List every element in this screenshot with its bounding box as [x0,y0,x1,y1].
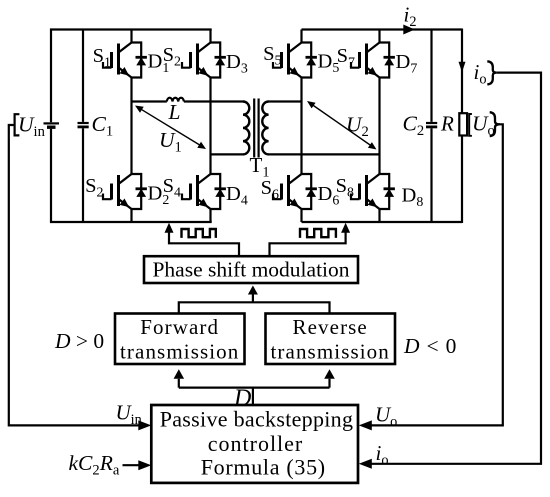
label Uo with sense brackets [469,112,500,140]
wire: primary bridge bottom rail [50,221,212,223]
resistor R [459,113,467,135]
arrowhead gate right [341,223,350,233]
transistor S4 [182,174,211,209]
svg-text:Reverse: Reverse [293,315,368,339]
wire: gate drive left (phase shift modulation to primary bridge) [169,232,239,256]
transformer T1 secondary winding [262,102,268,155]
wire: leg2 collector segment [209,30,211,44]
arrowhead gate left [165,223,174,233]
PWM waveform glyph right [300,229,336,238]
capacitor C1 [78,29,89,224]
svg-text:transmission: transmission [271,340,390,364]
wire: leg3 middle segment [300,77,302,176]
capacitor C2 [426,29,437,224]
wire: Uo feedback (right) [370,124,503,425]
diode D1 [132,43,147,78]
block: Phase shift modulation [144,256,358,283]
arrowhead into Reverse transmission [324,369,335,379]
wire: leg4 middle segment [378,77,380,176]
diode D4 [211,174,226,209]
arrowhead io into controller [359,459,372,469]
svg-text:Formula (35): Formula (35) [201,454,326,479]
transformer T1 core [254,99,258,158]
wire: io feedback (right) [370,73,541,464]
wire: leg3 collector segment [300,30,302,44]
arrowhead Uin into controller [138,420,151,430]
svg-text:Phase shift modulation: Phase shift modulation [152,258,349,282]
arrowhead into phase shift modulation [248,286,258,295]
diode D8 [380,174,395,209]
wire: leg3 emitter segment [300,208,302,222]
svg-text:R: R [440,112,454,136]
label Reverse transmission [271,315,390,364]
arrowhead Uo into controller [359,420,372,430]
svg-text:controller: controller [208,431,304,456]
transistor S8 [351,174,380,209]
block: Reverse transmission [266,314,396,365]
wire: controller output D to transmission boxes [179,379,330,405]
diode D7 [380,43,395,78]
wire: gate drive right (phase shift modulation to secondary bridge) [270,232,346,256]
label controller text [160,407,354,480]
wire: Uin feedback (left) [9,125,140,425]
wire: primary bridge top rail [50,28,212,30]
label io with sense brace [474,60,497,88]
arrow U1 (voltage annotation) [135,106,206,150]
svg-text:transmission: transmission [120,340,239,364]
wire: secondary bridge bottom rail [302,221,463,223]
transistor S6 [273,174,302,209]
arrow U2 (voltage annotation) [307,101,377,150]
block: Forward transmission [115,314,245,365]
inductor L (with wire to transformer) [132,98,244,102]
wire: leg4 collector segment [378,30,380,44]
wire: output right branch [461,29,463,224]
PWM waveform glyph left [182,229,216,238]
diode D2 [132,174,147,209]
wire: leg1 middle segment [130,77,132,176]
svg-text:Passive backstepping: Passive backstepping [160,407,354,432]
arrowhead kC2Ra into controller [138,460,151,470]
diode D6 [302,174,317,209]
transistor S5 [273,43,302,78]
wire: transformer secondary bottom to leg4 [268,153,379,155]
label Uin with sense bracket [15,113,46,141]
arrow i2 (output current) [403,25,415,35]
diode D3 [211,43,226,78]
svg-text:L: L [168,100,181,124]
transistor S1 [103,43,132,78]
arrowhead into Forward transmission [174,369,185,379]
wire: transmission boxes to phase shift modulation [179,295,330,314]
wire: leg2 emitter segment [209,208,211,222]
voltage source Uin (battery) [44,29,60,224]
svg-text:D < 0: D < 0 [403,334,457,358]
svg-text:D > 0: D > 0 [54,329,104,353]
arrow io (on output branch) [459,62,466,73]
wire: leg1 collector segment [130,30,132,44]
transistor S2 [103,174,132,209]
wire: secondary bridge top rail [302,28,463,30]
block: Passive backstepping controller [151,405,358,483]
transistor S7 [351,43,380,78]
svg-text:Forward: Forward [140,315,219,339]
wire: kC2Ra input arrow [123,464,141,466]
transistor S3 [182,43,211,78]
wire: transformer secondary top to leg3 [268,100,301,102]
wire: leg1 emitter segment [130,208,132,222]
transformer T1 primary winding [243,102,249,155]
wire: transformer primary bottom to leg2 [211,153,244,155]
wire: leg2 middle segment [209,77,211,176]
wire: leg4 emitter segment [378,208,380,222]
label Forward transmission [120,315,239,364]
diode D5 [302,43,317,78]
